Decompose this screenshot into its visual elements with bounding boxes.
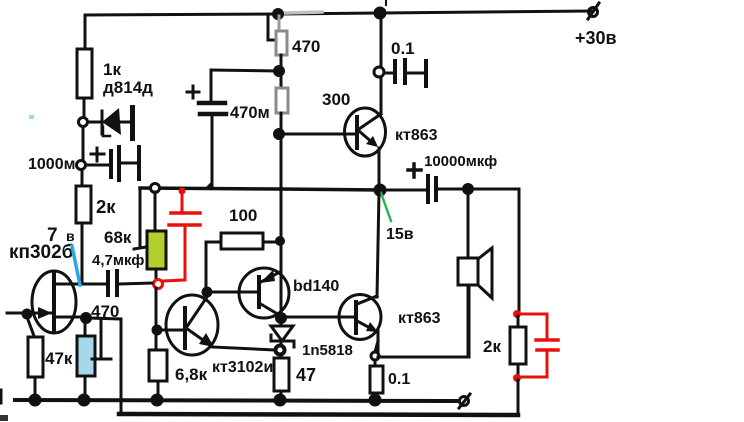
wire 1k to diode node: [83, 98, 86, 118]
resistor 2k: [76, 186, 91, 223]
node base kt863 fat dot: [275, 130, 284, 139]
svg-text:4,7мкф: 4,7мкф: [92, 252, 144, 269]
+30v terminal: [589, 8, 598, 17]
resistor 300: [276, 88, 288, 113]
bracket near 470 top: [268, 16, 277, 40]
svg-text:68к: 68к: [104, 228, 132, 247]
junction corner 470m with tick: [204, 181, 212, 189]
svg-text:6,8к: 6,8к: [175, 365, 208, 384]
svg-text:2к: 2к: [96, 196, 116, 217]
wire 68k node down to base node: [155, 288, 158, 348]
svg-text:кт863: кт863: [395, 127, 438, 144]
wire right corner down: [518, 189, 521, 312]
node emitter open circle: [371, 352, 379, 360]
svg-text:bd140: bd140: [293, 278, 339, 295]
svg-text:кп302б: кп302б: [9, 242, 73, 263]
jfet kp302b: [32, 271, 76, 333]
wire node A to node B: [82, 127, 85, 160]
wire base kt863 bottom: [285, 316, 355, 319]
resistor 100: [221, 233, 263, 249]
node speaker top fat dot: [464, 185, 473, 194]
stub 68k wiper: [139, 188, 142, 246]
speaker: [467, 194, 470, 258]
pointer 7v blue: [72, 246, 80, 285]
wire +30v top rail: [85, 11, 592, 15]
left edge marks: [0, 390, 3, 403]
resistor 2k output: [513, 310, 521, 318]
node top-left of 470: [274, 10, 283, 19]
node collector kt863 top rail: [375, 8, 385, 18]
svg-text:47: 47: [296, 365, 316, 385]
svg-text:1к: 1к: [103, 60, 121, 79]
svg-text:кт3102и: кт3102и: [212, 359, 273, 376]
resistor 47: [280, 354, 283, 358]
svg-text:10000мкф: 10000мкф: [424, 153, 497, 170]
node base kt3102 dot: [153, 326, 161, 334]
zener diode d814d: [88, 121, 100, 124]
svg-text:15в: 15в: [386, 226, 414, 243]
wire faded rail segment: [284, 12, 322, 13]
wire mid rail: [140, 188, 380, 190]
transistor kt863 top: [345, 108, 386, 156]
resistor 47k: [27, 317, 34, 336]
diode 1n5818: [280, 318, 283, 345]
15v pointer green: [381, 193, 391, 221]
wire base kt863 top: [279, 133, 356, 136]
wire emitter to speaker: [378, 356, 469, 359]
wire node B to resistor 2k: [81, 170, 84, 186]
capacitor 10000mkf: [385, 189, 426, 192]
transistor kt863 bottom: [339, 295, 381, 340]
svg-text:0.1: 0.1: [388, 371, 410, 388]
node source dot: [82, 314, 91, 323]
capacitor 470m: [211, 70, 277, 71]
svg-text:1n5818: 1n5818: [302, 342, 353, 359]
wire 2k down to jfet drain: [81, 223, 84, 284]
node red open circle: [154, 280, 163, 289]
svg-text:470: 470: [292, 37, 320, 56]
wire 470 to 300: [280, 55, 283, 88]
svg-text:300: 300: [322, 90, 350, 109]
svg-text:47к: 47к: [45, 349, 73, 368]
svg-text:+30в: +30в: [575, 28, 617, 48]
svg-text:д814д: д814д: [103, 78, 153, 97]
wire vertical main x281: [280, 134, 283, 318]
resistor 6.8k: [149, 350, 167, 381]
svg-text:0.1: 0.1: [391, 39, 415, 58]
transistor kt3102i: [166, 295, 218, 355]
node 100 right dot: [277, 238, 284, 245]
resistor 0.1 bottom: [374, 360, 377, 366]
node bd140 base dot: [203, 288, 211, 296]
wire 300 to base node: [280, 113, 283, 131]
transistor bd140: [239, 268, 289, 318]
svg-text:100: 100: [229, 206, 257, 225]
svg-text:в: в: [66, 228, 75, 244]
red cap output: [521, 314, 558, 377]
svg-text:470м: 470м: [230, 104, 270, 122]
resistor 1k: [77, 49, 92, 98]
output terminal: [460, 397, 469, 406]
resistor 470 top: [278, 16, 281, 31]
node B open circle: [77, 161, 86, 170]
svg-text:7: 7: [47, 225, 58, 246]
wire left branch from rail to R 1k: [84, 15, 87, 49]
capacitor 0.1 top: [374, 67, 384, 77]
ground rail bottom: [15, 400, 459, 401]
node A open circle: [79, 118, 88, 127]
node open circle top of 68k: [151, 184, 160, 193]
svg-text:1000м: 1000м: [28, 156, 75, 173]
node open circle below diode: [276, 346, 285, 355]
node 470m top fat dot: [275, 67, 284, 76]
svg-text:кт863: кт863: [398, 310, 441, 327]
second bottom rail: [119, 414, 518, 415]
svg-text:2к: 2к: [483, 337, 501, 356]
node 15v fat dot: [375, 185, 385, 195]
red cap top section: [162, 188, 200, 282]
node diode top fat dot: [277, 314, 286, 323]
resistor 68k green body: [154, 192, 157, 231]
wire feedback: [89, 318, 121, 414]
